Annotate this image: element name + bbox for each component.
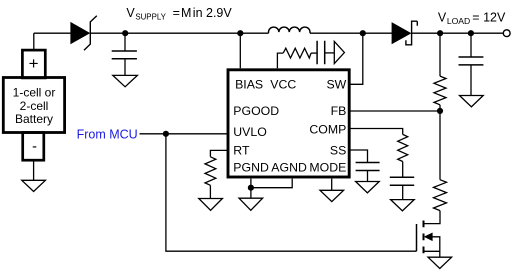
svg-text:-: - — [32, 139, 37, 155]
IC U1 body — [228, 70, 349, 177]
ground below battery — [22, 180, 46, 191]
wire inductor to diode D2 — [310, 32, 392, 34]
resistor R3 on COMP pin — [351, 129, 408, 178]
wire battery plus to top rail — [33, 33, 35, 50]
svg-text:SS: SS — [330, 144, 346, 158]
node junction above BIAS — [237, 30, 243, 36]
wire D2 to output terminal — [412, 32, 504, 34]
svg-text:PGOOD: PGOOD — [233, 104, 279, 118]
transistor Q1 N-MOSFET — [417, 221, 440, 258]
wire D1 cathode to VSUPPLY rail (through junctions) — [90, 32, 268, 34]
svg-text:VLOAD= 12V: VLOAD= 12V — [438, 10, 506, 26]
inductor L1 — [269, 27, 311, 33]
diode D1 cathode bar with bent ends — [84, 16, 97, 50]
capacitor C2 (output) — [459, 33, 484, 95]
resistor R4 on RT pin — [205, 150, 228, 198]
resistor R1 (upper feedback) — [434, 33, 446, 111]
battery B1 minus-terminal box — [23, 133, 44, 161]
wire BIAS pin to top rail — [239, 33, 241, 68]
ground below C4 — [391, 200, 415, 211]
node junction at SW column — [360, 30, 366, 36]
ground below C2 — [460, 96, 484, 107]
wire PGND to ground — [250, 179, 252, 199]
wire MCU node down and along bottom to gate — [166, 134, 417, 251]
node junction at feedback divider top — [437, 30, 443, 36]
ground below MODE — [320, 190, 344, 201]
wire AGND to PGND node — [251, 179, 292, 188]
sync input arrow symbol — [325, 41, 345, 63]
resistor R-snub from VCC — [277, 48, 317, 68]
battery B1 plus-terminal box — [22, 50, 45, 78]
capacitor C1 (input) — [112, 33, 137, 75]
wire battery minus to ground — [33, 160, 35, 180]
ground below C3 — [356, 182, 380, 193]
battery B1 body box — [3, 78, 64, 133]
svg-text:From MCU: From MCU — [77, 127, 138, 141]
node junction FB — [437, 108, 443, 114]
wire SW pin up to rail — [351, 33, 363, 84]
diode D2 (output, anode triangle) — [392, 23, 410, 43]
diode D1 (input, anode triangle) — [71, 23, 89, 44]
label VLOAD — [438, 10, 506, 26]
ground below Q1 source — [428, 257, 452, 268]
svg-text:2-cell: 2-cell — [20, 99, 49, 113]
node junction at output cap — [468, 30, 474, 36]
node junction PGND/AGND — [248, 185, 254, 191]
label VSUPPLY — [126, 6, 232, 22]
svg-text:VSUPPLY=Min 2.9V: VSUPPLY=Min 2.9V — [126, 6, 232, 22]
output terminal circle — [503, 30, 510, 37]
svg-text:BIAS: BIAS — [235, 77, 263, 91]
ground below PGND — [239, 198, 263, 210]
wire top rail battery to diode D1 — [34, 32, 71, 34]
node junction at input cap — [122, 30, 128, 36]
svg-text:PGND: PGND — [233, 161, 269, 175]
svg-text:UVLO: UVLO — [233, 125, 266, 139]
wire FB pin to divider — [351, 110, 441, 112]
ground below R4 — [199, 199, 223, 211]
svg-text:1-cell or: 1-cell or — [13, 86, 56, 100]
wire From MCU to UVLO pin — [140, 133, 228, 135]
resistor R2 (lower feedback) — [424, 111, 447, 224]
ground below C1 — [113, 75, 138, 86]
svg-text:VCC: VCC — [270, 77, 296, 91]
svg-text:FB: FB — [331, 104, 347, 118]
svg-text:SW: SW — [326, 77, 346, 91]
capacitor C-snub (series) — [317, 41, 325, 65]
svg-text:MODE: MODE — [309, 161, 346, 175]
node junction on MCU wire — [163, 131, 169, 137]
svg-text:RT: RT — [233, 144, 250, 158]
capacitor C3 on SS pin — [351, 150, 380, 182]
capacitor C4 (comp) — [390, 177, 414, 199]
svg-text:Battery: Battery — [15, 112, 53, 126]
svg-text:AGND: AGND — [271, 161, 307, 175]
svg-text:+: + — [29, 54, 39, 73]
diode D2 schottky cathode bar — [406, 21, 417, 45]
svg-text:COMP: COMP — [309, 122, 346, 136]
wire MODE to ground — [331, 179, 333, 191]
